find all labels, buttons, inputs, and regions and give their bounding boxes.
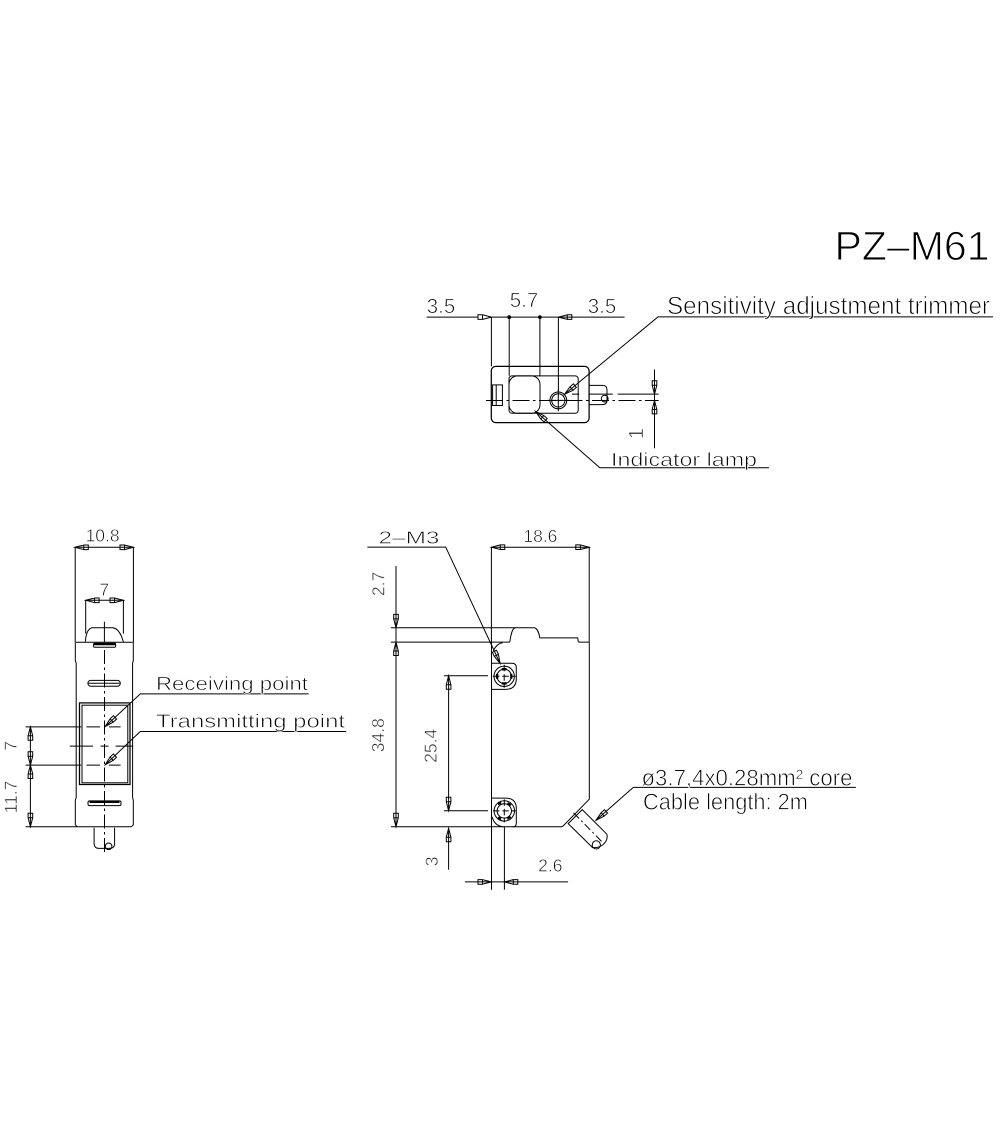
svg-text:Receiving point: Receiving point bbox=[156, 674, 309, 695]
arrow 3.5 left pair bbox=[478, 315, 491, 320]
leader arrow at cable boot bbox=[594, 810, 607, 822]
tab bump profile bbox=[510, 628, 579, 642]
arrow 1 up bbox=[652, 401, 657, 414]
window mid cross bbox=[70, 745, 133, 747]
body left edge bbox=[491, 642, 493, 890]
svg-text:3.5: 3.5 bbox=[588, 295, 617, 318]
svg-text:5.7: 5.7 bbox=[510, 289, 539, 312]
cable boot (front) bbox=[94, 828, 115, 849]
dim 2.6 bbox=[465, 881, 568, 883]
ext line hole center bbox=[503, 827, 505, 890]
leader arrow at hole 1 bbox=[492, 650, 502, 664]
hole 2 outer bbox=[494, 801, 514, 821]
top tab line + plateau bbox=[391, 627, 534, 629]
vertical centerline bbox=[104, 650, 106, 854]
arrow 2.6 left bbox=[478, 880, 491, 885]
arrow 7 up bbox=[28, 727, 33, 740]
leader receiving point bbox=[105, 694, 308, 727]
svg-text:7: 7 bbox=[1, 741, 21, 751]
svg-text:2.6: 2.6 bbox=[538, 856, 562, 876]
hole 1 outer bbox=[494, 666, 514, 686]
leader sensitivity adjustment trimmer bbox=[565, 317, 993, 394]
slot 3 bbox=[88, 801, 121, 806]
dim 3 bbox=[448, 829, 450, 870]
svg-text:7: 7 bbox=[100, 579, 110, 599]
inner face rect bbox=[509, 376, 578, 413]
leader indicator lamp bbox=[536, 411, 769, 467]
arrow 10.8 left bbox=[75, 545, 88, 550]
hole 2 inner bbox=[497, 804, 511, 818]
arrow 25.4 down bbox=[446, 797, 451, 810]
lens block bbox=[509, 376, 540, 413]
slot 3 bold line bbox=[90, 801, 120, 803]
arrow 3.5 right pair bbox=[558, 315, 571, 320]
arrow 34.8 up bbox=[394, 642, 399, 655]
arrow 11.7 down bbox=[28, 813, 33, 826]
arrow 7 down bbox=[28, 752, 33, 765]
dim dot 540 bbox=[538, 315, 542, 319]
arrow 7 left bbox=[86, 598, 99, 603]
svg-text:ø3.7,4x0.28mm² core: ø3.7,4x0.28mm² core bbox=[642, 764, 853, 790]
dim dot 509 bbox=[507, 315, 511, 319]
trimmer center cross bbox=[548, 390, 569, 412]
hole 1 inner bbox=[497, 669, 511, 683]
svg-text:18.6: 18.6 bbox=[523, 526, 557, 546]
front window slit bbox=[493, 385, 503, 406]
svg-text:3.5: 3.5 bbox=[427, 295, 456, 318]
left dim line bbox=[29, 727, 31, 827]
slot 1 bold line bbox=[94, 643, 115, 645]
hole 1 cross bbox=[493, 665, 516, 688]
arrow 2.6 right bbox=[504, 880, 517, 885]
slot 2 bbox=[88, 680, 120, 686]
window inner bbox=[82, 705, 128, 783]
boss lower bbox=[492, 798, 517, 827]
svg-text:Sensitivity adjustment trimmer: Sensitivity adjustment trimmer bbox=[667, 292, 990, 320]
arrow 11.7 up bbox=[28, 765, 33, 778]
arrow 1 down bbox=[652, 381, 657, 394]
upper body sides bbox=[75, 547, 133, 642]
offset line bbox=[572, 393, 659, 395]
svg-text:3: 3 bbox=[422, 857, 442, 867]
ext lines 7 bbox=[86, 600, 124, 633]
dome centerline bbox=[103, 622, 105, 643]
svg-text:Indicator lamp: Indicator lamp bbox=[611, 450, 757, 471]
leader arrow at transmitting point bbox=[104, 754, 117, 767]
hole 2 thread ticks bbox=[498, 803, 511, 819]
svg-text:2–M3: 2–M3 bbox=[379, 527, 440, 547]
bottom recess fillet bbox=[492, 817, 503, 827]
arrow 7 right bbox=[110, 598, 123, 603]
left side edge bbox=[75, 642, 77, 826]
svg-text:Transmitting point: Transmitting point bbox=[156, 712, 346, 733]
receiving point centerline bbox=[26, 726, 121, 728]
body outline (top view) bbox=[491, 366, 589, 422]
arrow 2.7 down bbox=[394, 614, 399, 627]
top recess fillet bbox=[493, 643, 502, 651]
arrow 10.8 right bbox=[120, 545, 133, 550]
bottom edge bbox=[391, 826, 561, 828]
cable boot (top) bbox=[589, 385, 607, 404]
body top edge bbox=[391, 641, 589, 643]
leader arrow at trimmer bbox=[563, 384, 576, 396]
arrow 25.4 up bbox=[446, 676, 451, 689]
dim line 7 bbox=[86, 599, 124, 601]
svg-text:Cable length: 2m: Cable length: 2m bbox=[643, 788, 808, 814]
dim line 18.6 bbox=[491, 546, 589, 548]
trimmer outer circle bbox=[550, 392, 567, 409]
svg-text:2.7: 2.7 bbox=[368, 572, 388, 596]
body right edge + chamfer bbox=[561, 642, 590, 827]
svg-text:34.8: 34.8 bbox=[368, 718, 388, 752]
svg-text:11.7: 11.7 bbox=[1, 781, 21, 814]
leader cable text bbox=[596, 787, 856, 820]
dim line 25.4 bbox=[448, 676, 450, 811]
centerline (top view) bbox=[486, 400, 659, 402]
cable boot (side) bbox=[568, 810, 607, 848]
leader transmitting point bbox=[105, 732, 346, 765]
slot 1 bbox=[94, 643, 116, 647]
leader arrow at receiving point bbox=[104, 716, 117, 729]
bottom edge + ext bbox=[26, 826, 132, 828]
right side edge bbox=[131, 642, 133, 826]
svg-text:PZ–M61: PZ–M61 bbox=[835, 223, 990, 269]
dim line 10.8 bbox=[75, 546, 133, 548]
arrow 18.6 right bbox=[576, 545, 589, 550]
leader arrow at lens corner bbox=[534, 410, 547, 422]
extension lines bbox=[491, 317, 558, 392]
svg-text:1: 1 bbox=[625, 428, 648, 439]
dim line top bbox=[427, 316, 625, 318]
svg-text:10.8: 10.8 bbox=[86, 526, 120, 546]
slit mid line bbox=[495, 385, 497, 406]
hole 2 cross bbox=[493, 799, 516, 822]
left dim line (2.7 / 34.8) bbox=[395, 566, 397, 827]
shoulder line bbox=[76, 641, 133, 643]
arrow 3 up bbox=[446, 828, 451, 841]
boot axis centerline bbox=[574, 813, 604, 844]
trimmer inner circle bbox=[552, 394, 565, 407]
arrow 34.8 down bbox=[394, 813, 399, 826]
transmitting point centerline bbox=[26, 764, 121, 766]
ext lines 25.4 bbox=[444, 676, 488, 811]
slot 2 mid line bbox=[89, 682, 120, 684]
cable end circle (side) bbox=[592, 841, 600, 849]
cable end arc (front) bbox=[105, 843, 112, 850]
lens dome bbox=[85, 628, 123, 642]
ext lines 18.6 bbox=[491, 547, 589, 642]
boss upper bbox=[492, 663, 517, 689]
leader 2-M3 bbox=[367, 547, 500, 663]
hole 1 thread ticks bbox=[497, 669, 511, 683]
window outer bbox=[80, 703, 131, 785]
cable end circle (top) bbox=[601, 395, 608, 402]
dim 1 line bbox=[654, 370, 656, 449]
arrow 18.6 left bbox=[491, 545, 504, 550]
svg-text:25.4: 25.4 bbox=[420, 729, 440, 763]
